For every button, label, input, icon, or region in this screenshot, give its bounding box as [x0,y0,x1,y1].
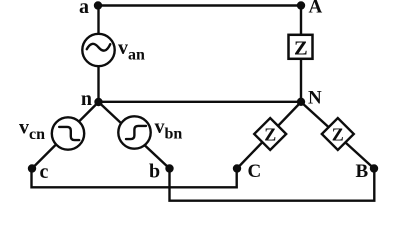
svg-text:B: B [356,161,369,182]
svg-text:Z: Z [264,124,276,144]
svg-text:n: n [81,88,92,110]
svg-text:Z: Z [332,124,344,144]
node C [233,164,241,172]
node n [94,98,102,106]
wire source van to n [97,66,99,102]
wire N to B (through Z diamond) [301,102,374,169]
node B [370,164,378,172]
wire n-N (neutral) [99,101,302,103]
wire a-A (top) [98,4,301,6]
svg-text:vbn: vbn [155,116,183,143]
impedance Z diamond (phase C) [254,118,286,150]
svg-text:Z: Z [294,38,308,60]
wire n to c (through vcn) [32,102,99,169]
node A [297,1,305,9]
impedance Z diamond (phase B) [322,118,354,150]
svg-text:C: C [248,161,262,182]
wire Z to N [300,59,302,102]
svg-text:c: c [40,161,49,183]
source van [82,34,114,66]
wire a to source van [97,6,99,35]
wire A to Z [300,6,302,36]
wire c to C (bottom return) [32,169,237,188]
svg-text:vcn: vcn [19,117,45,144]
svg-text:van: van [118,37,145,64]
node c [28,164,36,172]
impedance Z box (phase A) [289,35,313,59]
svg-text:a: a [79,0,89,18]
source vbn [118,116,150,148]
svg-text:A: A [309,0,323,18]
svg-text:b: b [149,161,160,183]
svg-text:N: N [308,88,322,109]
node b [165,164,173,172]
wire n to b (through vbn) [99,102,170,169]
node N [297,98,305,106]
wire b to B (bottom return) [170,169,375,201]
source vcn [52,117,84,149]
wire N to C (through Z diamond) [237,102,301,169]
node a [94,1,102,9]
